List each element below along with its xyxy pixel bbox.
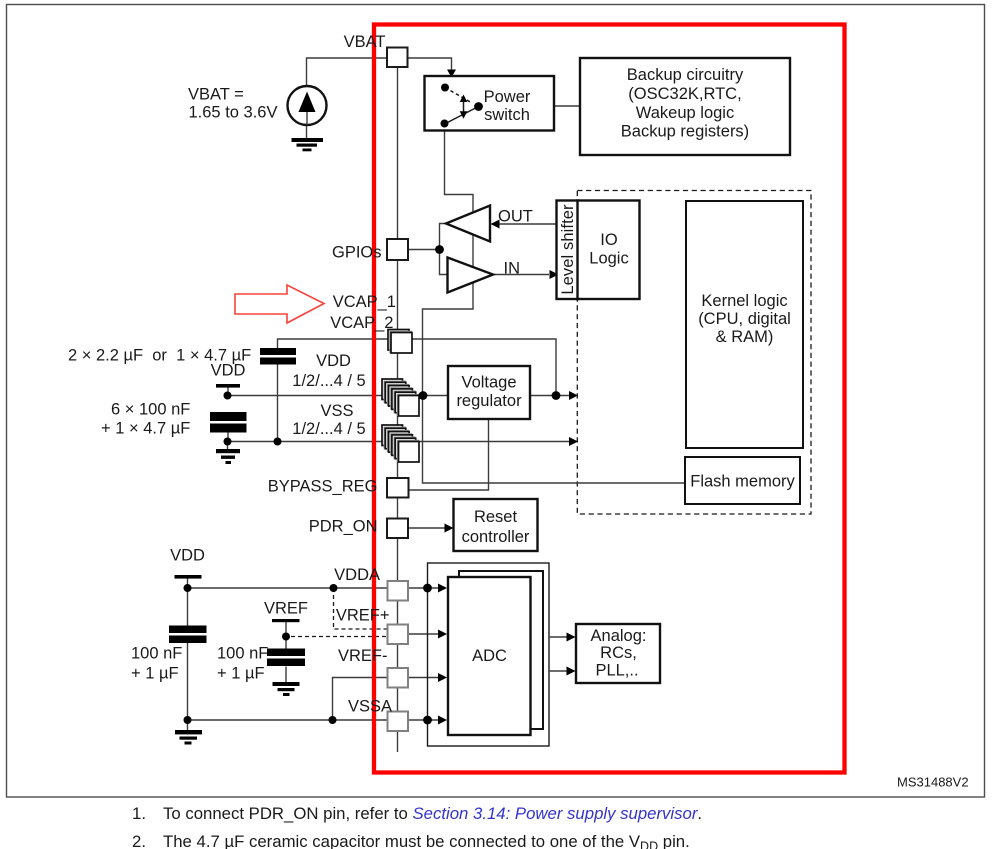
svg-text:Backup circuitry: Backup circuitry	[627, 66, 744, 84]
svg-text:Kernel logic: Kernel logic	[701, 292, 787, 310]
svg-text:VREF+: VREF+	[336, 607, 390, 625]
svg-text:VREF-: VREF-	[338, 647, 388, 665]
svg-text:Flash memory: Flash memory	[690, 473, 795, 491]
svg-text:The 4.7 µF ceramic capacitor m: The 4.7 µF ceramic capacitor must be con…	[163, 832, 690, 849]
svg-text:To connect PDR_ON pin, refer t: To connect PDR_ON pin, refer to Section …	[163, 804, 702, 823]
svg-text:1/2/...4 / 5: 1/2/...4 / 5	[292, 372, 365, 390]
svg-text:controller: controller	[462, 528, 530, 546]
svg-text:Wakeup logic: Wakeup logic	[636, 104, 734, 122]
svg-text:Reset: Reset	[474, 508, 518, 526]
svg-text:1.: 1.	[132, 804, 146, 823]
svg-text:PDR_ON: PDR_ON	[309, 518, 378, 536]
svg-text:VDD: VDD	[316, 352, 351, 370]
svg-text:VREF: VREF	[264, 600, 308, 618]
svg-text:VSS: VSS	[320, 402, 353, 420]
svg-text:& RAM): & RAM)	[716, 328, 774, 346]
svg-text:Power: Power	[484, 88, 531, 106]
svg-text:1/2/...4 / 5: 1/2/...4 / 5	[292, 420, 365, 438]
svg-text:VSSA: VSSA	[348, 698, 392, 716]
svg-text:OUT: OUT	[498, 208, 533, 226]
svg-text:Backup registers): Backup registers)	[621, 123, 749, 141]
svg-text:+ 1 µF: + 1 µF	[131, 665, 179, 683]
svg-text:MS31488V2: MS31488V2	[897, 775, 969, 790]
svg-text:(OSC32K,RTC,: (OSC32K,RTC,	[628, 85, 741, 103]
svg-text:+ 1 × 4.7 µF: + 1 × 4.7 µF	[101, 420, 190, 438]
svg-text:VDDA: VDDA	[334, 566, 380, 584]
svg-text:100 nF: 100 nF	[131, 645, 182, 663]
svg-text:VCAP_1: VCAP_1	[333, 293, 396, 311]
svg-text:1.65 to 3.6V: 1.65 to 3.6V	[189, 104, 278, 122]
svg-text:BYPASS_REG: BYPASS_REG	[268, 478, 378, 496]
svg-text:(CPU, digital: (CPU, digital	[698, 310, 791, 328]
svg-text:VDD: VDD	[211, 362, 246, 380]
svg-text:100 nF: 100 nF	[217, 645, 268, 663]
svg-text:+ 1 µF: + 1 µF	[217, 665, 265, 683]
svg-text:GPIOs: GPIOs	[332, 244, 382, 262]
svg-text:RCs,: RCs,	[600, 644, 637, 662]
svg-text:Logic: Logic	[589, 250, 628, 268]
svg-text:IN: IN	[504, 260, 521, 278]
svg-text:regulator: regulator	[456, 392, 522, 410]
svg-text:Analog:: Analog:	[591, 627, 647, 645]
svg-text:VBAT =: VBAT =	[188, 86, 244, 104]
svg-text:VCAP_2: VCAP_2	[330, 314, 393, 332]
svg-text:switch: switch	[484, 106, 530, 124]
svg-text:VDD: VDD	[170, 547, 205, 565]
svg-text:ADC: ADC	[472, 647, 507, 665]
svg-text:Voltage: Voltage	[461, 374, 516, 392]
svg-text:2.: 2.	[132, 832, 146, 849]
svg-text:PLL,..: PLL,..	[595, 662, 638, 680]
svg-text:VBAT: VBAT	[344, 33, 386, 51]
svg-text:Level shifter: Level shifter	[559, 204, 577, 295]
svg-text:IO: IO	[600, 231, 618, 249]
svg-text:6 × 100 nF: 6 × 100 nF	[111, 401, 190, 419]
